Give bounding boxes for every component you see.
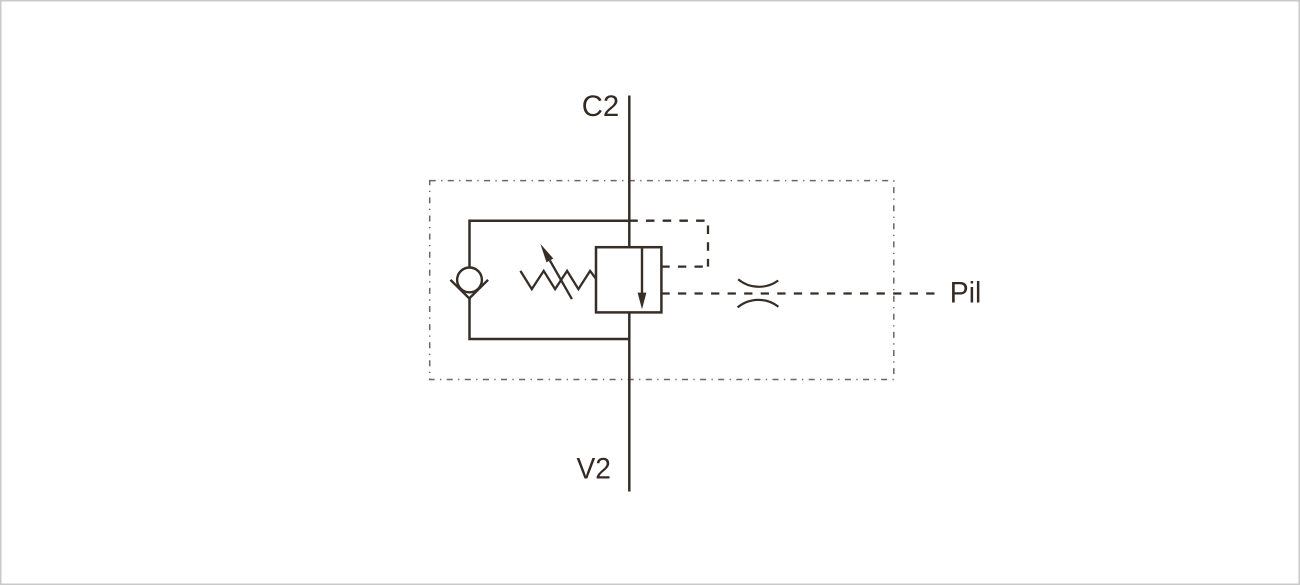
svg-text:V2: V2: [577, 452, 612, 485]
svg-text:C2: C2: [582, 90, 620, 123]
svg-text:Pil: Pil: [950, 276, 982, 309]
